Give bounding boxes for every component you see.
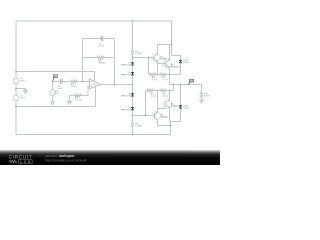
resistor R4 (97, 56, 104, 59)
flag input node (53, 78, 55, 82)
wire output rail (169, 84, 201, 86)
svg-text:yenuvus / darlington: yenuvus / darlington (45, 154, 74, 158)
svg-text:Red_A: Red_A (183, 61, 190, 64)
svg-text:MMBD4148: MMBD4148 (121, 74, 131, 76)
wire collector rail (158, 44, 172, 46)
svg-text:MMBD4148: MMBD4148 (121, 95, 131, 97)
diode D1 (131, 62, 134, 65)
wire supply drop (171, 21, 173, 56)
resistor R1 (70, 80, 77, 83)
wire upper base (133, 57, 154, 59)
svg-text:100 kΩ: 100 kΩ (98, 62, 105, 64)
wire D2 to D3 (131, 76, 133, 94)
wire R2 to opamp (81, 86, 89, 95)
svg-text:4.7 Ω: 4.7 Ω (152, 79, 158, 81)
resistor R9 (160, 89, 167, 92)
svg-text:MMBD4148: MMBD4148 (121, 109, 131, 111)
wire feedback bottom right (104, 56, 115, 58)
wire mid supply stub (16, 88, 26, 90)
wire D3 to D4 (131, 97, 133, 107)
ground load (200, 100, 204, 103)
wire node B2 riser (156, 91, 158, 109)
wire R6 to bottom rail (131, 127, 133, 134)
wire below V1 (15, 101, 17, 135)
wire V3 top (51, 81, 53, 89)
svg-text:http://circuitlab.com/c/ra74ad: http://circuitlab.com/c/ra74ad4 (45, 158, 87, 162)
wire lower corner (169, 122, 171, 135)
wire LED1 branch (172, 56, 181, 60)
wire between sources (15, 84, 17, 95)
flag output node (188, 81, 190, 84)
wire R8 tap (144, 91, 146, 116)
node feedback tap (82, 81, 84, 83)
wire load drop (200, 85, 202, 92)
wire riser to out rail (172, 85, 174, 91)
wire bottom rail (16, 133, 170, 135)
svg-text:4.7 Ω: 4.7 Ω (151, 96, 157, 98)
wire node B drop (157, 64, 159, 75)
LED D5 (179, 60, 182, 63)
wire Q3 collector run (157, 125, 170, 127)
svg-text:5 V: 5 V (55, 93, 59, 95)
svg-text:in: in (54, 76, 56, 78)
resistor R3 (131, 50, 133, 55)
ground R2 (68, 95, 70, 101)
wire R10 to ground (200, 97, 202, 100)
wire R9 to rail riser (166, 90, 173, 92)
wire emitter to out rail (168, 75, 170, 85)
voltage source V3 (50, 90, 56, 96)
wire feedback bottom left (83, 56, 98, 58)
wire lower base (132, 115, 154, 117)
resistor R6 (131, 122, 133, 127)
wire R5 tap (148, 58, 150, 75)
svg-text:4.7 Ω: 4.7 Ω (162, 79, 168, 81)
svg-text:10 kΩ: 10 kΩ (71, 86, 77, 88)
wire LED1 to emitter wire (180, 63, 182, 74)
wire D1 to D2 (132, 66, 134, 72)
svg-text:LAB: LAB (20, 160, 31, 164)
capacitor C2 (100, 36, 102, 41)
resistor R10 (200, 92, 203, 97)
wire feedback top right (103, 37, 115, 39)
voltage source V1 (13, 95, 19, 101)
wire R3 to D1 (132, 55, 134, 62)
svg-text:15 V: 15 V (20, 97, 25, 99)
wire left rail (15, 21, 17, 78)
node top junction (132, 20, 134, 22)
wire rail drop (132, 21, 134, 50)
wire opamp output (100, 83, 132, 85)
svg-text:15 V: 15 V (20, 80, 25, 82)
wire R1 to opamp (77, 80, 89, 82)
op-amp OA1 (89, 79, 100, 89)
ground mid supply (24, 91, 28, 94)
wire gnd to R2 (69, 94, 74, 96)
svg-text:47 uF: 47 uF (99, 45, 105, 47)
resistor R7 (160, 73, 167, 76)
voltage source V2 (13, 78, 19, 84)
resistor R8 (145, 90, 146, 92)
wire R8 R9 (153, 90, 159, 92)
wire V- feed (16, 86, 96, 106)
transistor Q3 (152, 111, 161, 120)
svg-text:4.7 kΩ: 4.7 kΩ (75, 99, 82, 101)
resistor R5 (149, 74, 150, 76)
wire R5 R7 (156, 74, 160, 76)
wire LED2 top (179, 85, 181, 106)
transistor Q4 (163, 99, 172, 108)
svg-text:MMBD4148: MMBD4148 (121, 64, 131, 66)
wire D4 to R6 (131, 111, 133, 123)
diode D3 (131, 93, 134, 96)
wire C1 to R1 (63, 80, 71, 82)
svg-text:1 uF: 1 uF (58, 88, 63, 90)
svg-text:2N3904_A: 2N3904_A (171, 66, 181, 69)
wire V3 bottom (51, 96, 53, 102)
svg-text:Red_A: Red_A (183, 107, 190, 110)
wire Q1 emitter to Q2 base (158, 63, 166, 65)
wire feedback left (82, 38, 84, 81)
transistor Q1 (151, 53, 160, 62)
wire Q3 emitter to Q4 base (157, 108, 165, 110)
ground V3 (51, 102, 55, 105)
svg-text:1.0 kΩ: 1.0 kΩ (135, 53, 142, 55)
svg-text:4.7 Ω: 4.7 Ω (163, 96, 169, 98)
transistor Q2 (163, 59, 172, 68)
wire R7 to LED drop (166, 74, 180, 76)
resistor R2 (74, 94, 81, 97)
diode D4 (131, 107, 134, 110)
svg-text:100 Ω: 100 Ω (204, 95, 210, 97)
svg-text:1.0 kΩ: 1.0 kΩ (135, 126, 142, 128)
wire feedback top left (83, 37, 101, 39)
wire input to C1 (53, 80, 60, 82)
wire feedback right (113, 39, 115, 85)
svg-text:out: out (190, 80, 193, 83)
node input junction (52, 81, 54, 83)
wire top rail (16, 20, 172, 22)
wire V+ feed (16, 71, 95, 81)
diode D2 (131, 72, 134, 75)
wire LED2 bottom (169, 109, 180, 122)
capacitor C1 (59, 79, 61, 84)
